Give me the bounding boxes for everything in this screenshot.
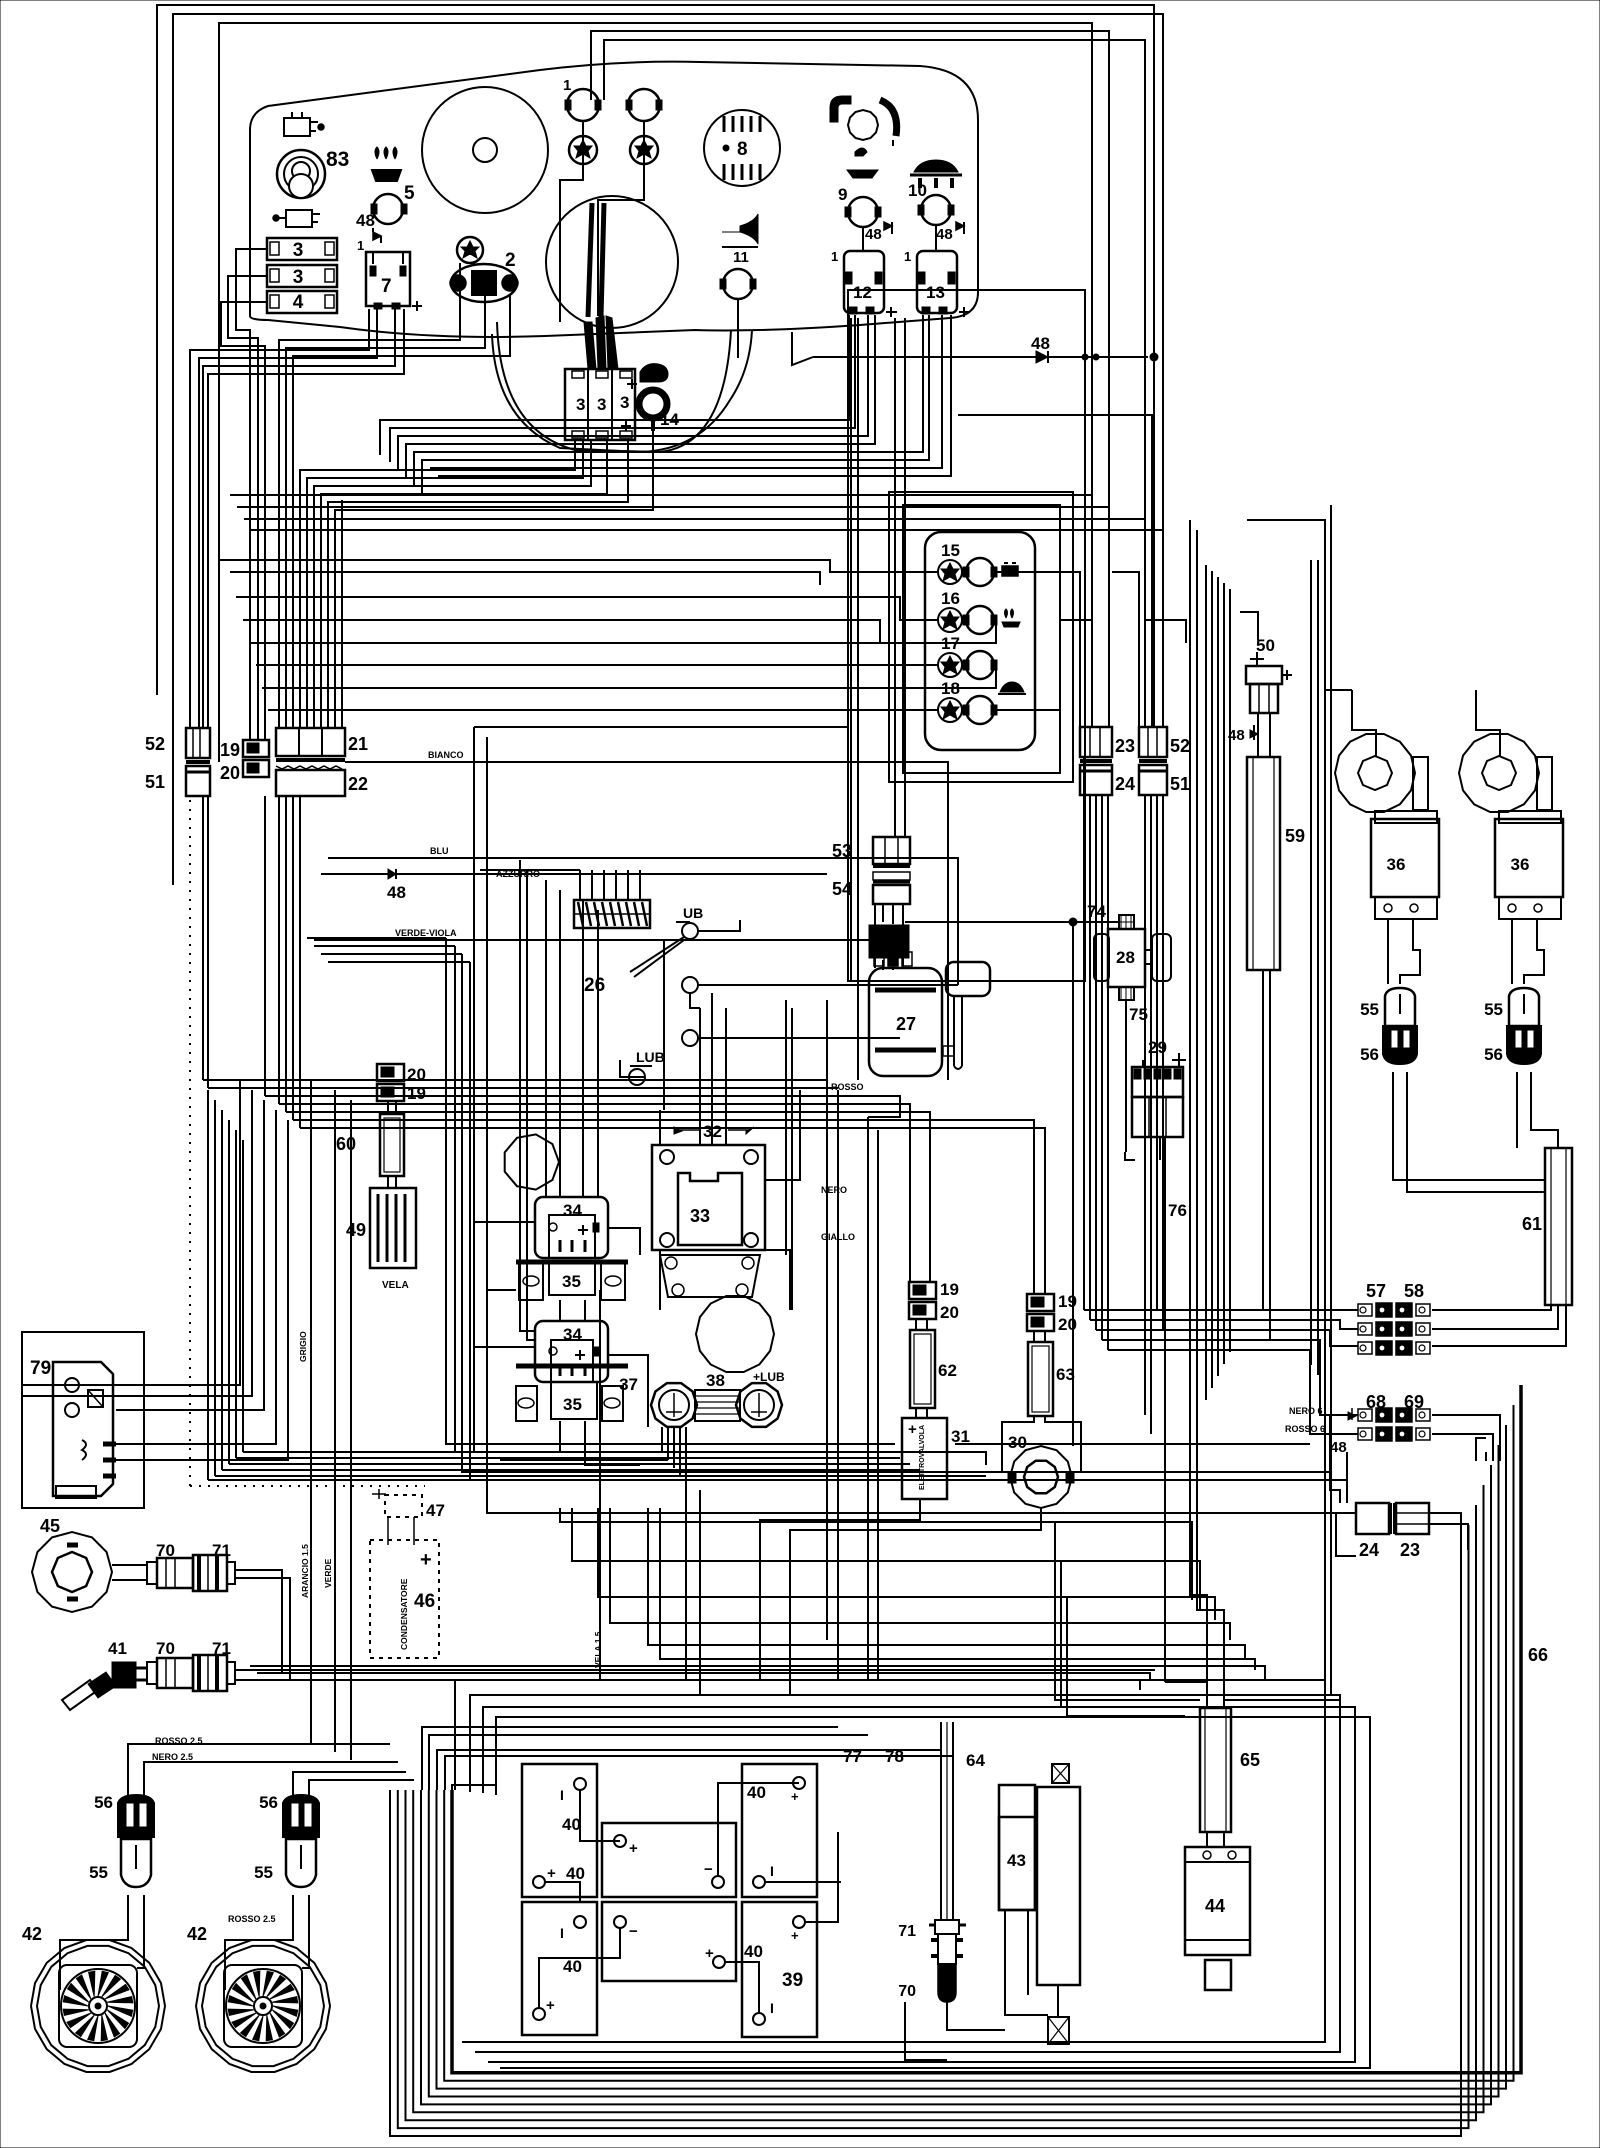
svg-text:19: 19 bbox=[220, 740, 240, 760]
svg-text:24: 24 bbox=[1115, 774, 1135, 794]
choke icon bbox=[830, 96, 851, 122]
svg-text:23: 23 bbox=[1115, 736, 1135, 756]
svg-text:GRIGIO: GRIGIO bbox=[298, 1331, 308, 1362]
connector 19/20 (63) bbox=[1027, 1294, 1054, 1311]
svg-text:12: 12 bbox=[853, 283, 872, 302]
solenoid tube 63 bbox=[1033, 1331, 1035, 1342]
svg-text:57: 57 bbox=[1366, 1281, 1386, 1301]
battery cell B bbox=[602, 1823, 736, 1897]
svg-text:52: 52 bbox=[1170, 736, 1190, 756]
engine compartment box 1 bbox=[455, 1680, 1325, 2042]
relay box 43 bbox=[999, 1785, 1035, 1910]
svg-text:I: I bbox=[560, 1925, 564, 1941]
svg-text:65: 65 bbox=[1240, 1750, 1260, 1770]
battery cell A bbox=[522, 1764, 597, 1897]
svg-text:48: 48 bbox=[387, 883, 406, 902]
svg-text:13: 13 bbox=[926, 283, 945, 302]
connector 20 small left bbox=[243, 760, 269, 777]
svg-text:52: 52 bbox=[145, 734, 165, 754]
svg-text:VERDE-VIOLA: VERDE-VIOLA bbox=[395, 928, 457, 938]
lamp star icon bbox=[457, 237, 483, 263]
cable 65 bbox=[1200, 1708, 1231, 1832]
svg-text:48: 48 bbox=[1330, 1439, 1347, 1456]
wires connectors up to bundle bbox=[128, 1744, 390, 1797]
svg-text:23: 23 bbox=[1400, 1540, 1420, 1560]
svg-text:48: 48 bbox=[865, 226, 882, 243]
wires horn/lamps down bbox=[737, 299, 739, 358]
svg-text:35: 35 bbox=[563, 1395, 582, 1414]
svg-text:16: 16 bbox=[941, 589, 960, 608]
svg-text:56: 56 bbox=[94, 1793, 113, 1812]
wires to 79 box bbox=[22, 1384, 116, 1386]
svg-text:BIANCO: BIANCO bbox=[428, 750, 464, 760]
wires mid column down to relays bbox=[474, 727, 986, 1465]
fuse under 28 bbox=[1119, 987, 1134, 1000]
fan motor 42 bbox=[196, 1940, 330, 2072]
svg-text:+: + bbox=[420, 1549, 432, 1571]
wires lamp cluster right side bbox=[1112, 572, 1139, 727]
thick harness into fuse block bbox=[584, 322, 596, 369]
icon oil (lamp16) bbox=[1002, 622, 1020, 627]
connector 22 (multi-pin lower) bbox=[276, 758, 345, 762]
wires 36 fans to 55/56 bbox=[1387, 919, 1389, 984]
connector 56 body bbox=[1383, 1026, 1417, 1064]
switch 26 feed wires down bbox=[699, 1008, 701, 1145]
wires 43 to cylinder bbox=[1005, 1910, 1048, 2015]
svg-text:37: 37 bbox=[619, 1375, 638, 1394]
relay mount 35 (first) bbox=[516, 1260, 628, 1265]
oil tank 27 bbox=[869, 968, 942, 1076]
svg-text:ROSSO 6: ROSSO 6 bbox=[1285, 1424, 1325, 1434]
connector 55 bullet bbox=[1385, 988, 1415, 1026]
wire bundle left frame to connectors bbox=[189, 430, 191, 728]
top long runs y495-530 bbox=[230, 494, 1092, 496]
svg-text:19: 19 bbox=[1058, 1292, 1077, 1311]
svg-text:55: 55 bbox=[254, 1863, 273, 1882]
relay 34 (first) bbox=[535, 1197, 608, 1258]
fuse 3 row1 bbox=[267, 238, 337, 260]
wires panel bottom fanout bbox=[190, 309, 369, 430]
svg-text:10: 10 bbox=[908, 181, 927, 200]
svg-text:40: 40 bbox=[563, 1957, 582, 1976]
condenser 46 (dashed box) bbox=[370, 1540, 439, 1658]
tank handle bbox=[946, 962, 990, 996]
fuse 3 row2 bbox=[267, 265, 337, 287]
svg-text:38: 38 bbox=[706, 1371, 725, 1390]
wires 61 bottom to strips bbox=[1550, 1305, 1552, 1310]
mid-bottom verticals to starter bbox=[1055, 1522, 1200, 1700]
solenoid tube 62 bbox=[915, 1319, 917, 1330]
svg-text:43: 43 bbox=[1007, 1851, 1026, 1870]
switch 26 contact 3 bbox=[682, 1030, 698, 1046]
instrument 8 (tacho) bbox=[704, 110, 780, 186]
wires 32/33 region bbox=[659, 1110, 661, 1145]
cable 59 bbox=[1247, 757, 1280, 970]
wires 36 fans top feeds bbox=[1352, 690, 1376, 757]
diode 48 on bus wire bbox=[813, 356, 1148, 358]
svg-text:39: 39 bbox=[782, 1970, 803, 1991]
mid horizontals y938-962 bbox=[307, 937, 446, 939]
horizontal bundle y1444-1480 long bbox=[243, 1451, 986, 1453]
wire with diode 48 mid bbox=[321, 873, 827, 875]
connector 55 bullet bbox=[1509, 988, 1539, 1026]
battery cell D bbox=[522, 1902, 597, 2035]
svg-text:5: 5 bbox=[404, 183, 415, 204]
icon lighter bbox=[286, 210, 312, 227]
svg-text:71: 71 bbox=[898, 1923, 916, 1940]
wire GRIGIO vertical bbox=[310, 1080, 312, 1744]
svg-text:36: 36 bbox=[1387, 855, 1406, 874]
coil lower bracket bbox=[660, 1255, 760, 1297]
wires relays down to harness 53 bbox=[850, 318, 852, 980]
svg-text:GIALLO: GIALLO bbox=[821, 1232, 855, 1242]
svg-text:3: 3 bbox=[620, 393, 629, 412]
engine compartment box 3 bbox=[483, 1707, 1355, 2062]
svg-text:2: 2 bbox=[505, 250, 516, 271]
svg-text:48: 48 bbox=[1031, 334, 1050, 353]
svg-text:40: 40 bbox=[747, 1783, 766, 1802]
svg-text:1: 1 bbox=[831, 249, 838, 264]
verticals heading down right of centre bbox=[1083, 757, 1085, 1310]
svg-text:36: 36 bbox=[1511, 855, 1530, 874]
wires relays 12/13 down-left bbox=[380, 315, 849, 455]
dotted ground wire horizontal bbox=[190, 1485, 425, 1487]
wire VERDE vertical bbox=[350, 1100, 352, 1760]
svg-text:VELA 1.5: VELA 1.5 bbox=[593, 1631, 603, 1668]
bundle corner horizontals bbox=[422, 1727, 838, 1790]
dotted ground wire vertical bbox=[189, 800, 191, 1486]
svg-text:1: 1 bbox=[904, 249, 911, 264]
svg-text:49: 49 bbox=[346, 1220, 366, 1240]
svg-text:7: 7 bbox=[381, 276, 392, 297]
svg-text:11: 11 bbox=[733, 249, 749, 266]
svg-text:59: 59 bbox=[1285, 826, 1305, 846]
svg-text:19: 19 bbox=[940, 1280, 959, 1299]
svg-text:I: I bbox=[770, 2000, 774, 2016]
outer frame line 1 (top/left/right) bbox=[157, 5, 1154, 727]
svg-text:20: 20 bbox=[940, 1303, 959, 1322]
svg-text:76: 76 bbox=[1168, 1201, 1187, 1220]
svg-text:20: 20 bbox=[407, 1065, 426, 1084]
icon shower 10 bbox=[914, 160, 958, 172]
bottom connector 23/24 wires bbox=[1330, 1415, 1340, 1503]
svg-text:56: 56 bbox=[1484, 1045, 1503, 1064]
capacitor 47 (dashed) bbox=[385, 1495, 422, 1517]
connector 55 (fan lead) bbox=[286, 1839, 316, 1887]
svg-text:−: − bbox=[704, 1861, 713, 1878]
svg-text:4: 4 bbox=[293, 292, 304, 313]
svg-text:42: 42 bbox=[22, 1924, 42, 1944]
svg-text:27: 27 bbox=[896, 1014, 916, 1034]
wire top frame inner bbox=[604, 40, 1145, 727]
outer frame line 4 bbox=[591, 31, 1109, 727]
engine compartment box 4 bbox=[496, 1717, 1370, 2068]
svg-text:NERO 2.5: NERO 2.5 bbox=[152, 1752, 193, 1762]
engine bay connect runs bbox=[250, 1666, 1265, 1680]
svg-text:42: 42 bbox=[187, 1924, 207, 1944]
relay area cross wires bbox=[474, 1221, 535, 1223]
svg-text:61: 61 bbox=[1522, 1214, 1542, 1234]
connector 56 body bbox=[1507, 1026, 1541, 1064]
fan motor 42 bbox=[31, 1940, 165, 2072]
wires 55/56 down to 61/57 bbox=[1393, 1072, 1545, 1180]
fuse block 3-3-3 bbox=[565, 369, 635, 440]
harness tape (black blob) bbox=[869, 925, 909, 958]
battery cell C bbox=[742, 1764, 817, 1897]
connector 19/20 (62) bbox=[909, 1282, 936, 1299]
svg-text:+: + bbox=[629, 1840, 638, 1857]
icon temp (lamp18) bbox=[1000, 682, 1024, 692]
mid-right long verticals bbox=[1190, 520, 1207, 1708]
battery cell E bbox=[602, 1902, 736, 1981]
svg-text:LUB: LUB bbox=[636, 1049, 665, 1065]
svg-text:64: 64 bbox=[966, 1751, 985, 1770]
svg-text:UB: UB bbox=[683, 905, 703, 921]
lamp cluster mid box bbox=[889, 492, 1073, 782]
svg-text:I: I bbox=[770, 1863, 774, 1879]
svg-text:I: I bbox=[560, 1787, 564, 1803]
svg-text:33: 33 bbox=[690, 1206, 710, 1226]
svg-text:ROSSO 2.5: ROSSO 2.5 bbox=[228, 1914, 276, 1924]
wire 75/76 bottom runs bbox=[1125, 1152, 1135, 1160]
svg-text:55: 55 bbox=[89, 1863, 108, 1882]
ignition device 2/6 bbox=[451, 264, 517, 302]
wire horizontal mid-right group bbox=[1247, 520, 1325, 1680]
svg-text:70: 70 bbox=[156, 1639, 175, 1658]
wires from gauges down to 21 connector bbox=[279, 263, 460, 500]
wire 70 to cylinder bbox=[947, 2002, 1005, 2030]
wires bundle 66 feeders bbox=[1476, 1438, 1486, 1461]
svg-text:+: + bbox=[547, 1865, 556, 1882]
horn button 11 circle bbox=[723, 269, 753, 299]
pump 28 bbox=[1108, 929, 1145, 987]
steering column thick wires bbox=[588, 203, 592, 317]
wires fan2 to connector bbox=[225, 1895, 293, 1990]
svg-text:15: 15 bbox=[941, 541, 960, 560]
connector 51 (upper right) bbox=[1139, 759, 1167, 763]
battery cell F bbox=[742, 1902, 817, 2037]
svg-text:58: 58 bbox=[1404, 1281, 1424, 1301]
blower fan 36 bbox=[1459, 734, 1539, 812]
svg-text:40: 40 bbox=[744, 1942, 763, 1961]
svg-text:22: 22 bbox=[348, 774, 368, 794]
wires down to engine box bbox=[685, 1484, 687, 1680]
wire across to lamp box bbox=[474, 726, 848, 728]
svg-text:3: 3 bbox=[293, 240, 304, 261]
connector 51 lower part bbox=[186, 760, 210, 764]
wires 50/59 tails bbox=[1240, 612, 1258, 640]
connector 56 (fan lead) bbox=[118, 1795, 154, 1837]
svg-text:45: 45 bbox=[40, 1516, 60, 1536]
mid verticals bundle x446-470 bbox=[446, 938, 895, 1444]
svg-text:48: 48 bbox=[356, 211, 375, 230]
svg-text:24: 24 bbox=[1359, 1540, 1379, 1560]
svg-text:28: 28 bbox=[1116, 948, 1135, 967]
svg-text:3: 3 bbox=[576, 395, 585, 414]
outer frame line 3 bbox=[219, 23, 1092, 762]
svg-text:6: 6 bbox=[478, 276, 487, 295]
svg-text:34: 34 bbox=[563, 1325, 582, 1344]
outer frame line 2 bbox=[173, 14, 1163, 885]
svg-text:VERDE: VERDE bbox=[323, 1558, 333, 1588]
wire VELA 1.5 long vertical bbox=[599, 1290, 601, 1680]
steering column bulge of panel bbox=[492, 330, 752, 452]
flasher relay 13 bbox=[917, 251, 957, 313]
connector 56 (fan lead) bbox=[283, 1795, 319, 1837]
connector 53 bbox=[873, 837, 910, 864]
wires fan1 to connector bbox=[60, 1895, 128, 1990]
svg-text:56: 56 bbox=[259, 1793, 278, 1812]
svg-text:40: 40 bbox=[562, 1815, 581, 1834]
svg-text:+: + bbox=[908, 1421, 917, 1438]
cable 61 bbox=[1545, 1148, 1572, 1305]
svg-text:+: + bbox=[705, 1945, 714, 1962]
svg-text:34: 34 bbox=[563, 1201, 582, 1220]
blower fan 36 bbox=[1335, 734, 1415, 812]
strip 68/69 right side wires bbox=[1432, 1415, 1500, 1461]
regulator 7 bbox=[366, 252, 410, 306]
connector 20/19 (mid) bbox=[377, 1064, 404, 1081]
connector 52 upper part bbox=[186, 728, 210, 758]
icon battery (lamp15) bbox=[1002, 566, 1018, 576]
svg-text:NERO: NERO bbox=[821, 1185, 847, 1195]
choke knob bbox=[848, 110, 878, 140]
svg-text:3: 3 bbox=[293, 267, 304, 288]
svg-text:55: 55 bbox=[1484, 1000, 1503, 1019]
svg-text:3: 3 bbox=[597, 395, 606, 414]
centre region verticals (77/78 etc) bbox=[826, 1000, 828, 1640]
wires from connectors to right bbox=[235, 1570, 282, 1673]
black arc lever bbox=[880, 100, 897, 136]
trim cylinder bbox=[1037, 1787, 1080, 1985]
wires 30/31 down bbox=[760, 1499, 920, 1680]
starter motor 44 bbox=[1206, 1832, 1208, 1847]
connector 19 small left bbox=[243, 740, 269, 757]
wires 26 switch to right bbox=[698, 920, 740, 931]
svg-text:1: 1 bbox=[357, 238, 364, 253]
fuel gauge (big circle) bbox=[422, 87, 548, 213]
svg-text:60: 60 bbox=[336, 1134, 356, 1154]
svg-text:56: 56 bbox=[1360, 1045, 1379, 1064]
resistor 60 bbox=[387, 1101, 389, 1114]
long mid horizontals lower bbox=[560, 1508, 1192, 1600]
distributor circle bbox=[696, 1296, 774, 1372]
wire loop bundle 66 (right side + bottom) bbox=[390, 1545, 1461, 2136]
svg-text:41: 41 bbox=[108, 1639, 127, 1658]
svg-text:ARANCIO 1.5: ARANCIO 1.5 bbox=[300, 1544, 310, 1598]
connector 23 (bottom) bbox=[1396, 1503, 1429, 1534]
wire BLU bbox=[328, 858, 958, 985]
relay mount 35 (second) bbox=[516, 1364, 628, 1369]
svg-text:21: 21 bbox=[348, 734, 368, 754]
svg-text:79: 79 bbox=[30, 1358, 51, 1379]
connector 23 (upper right) bbox=[1080, 727, 1112, 757]
wire 29 to 75 connect bbox=[1125, 1000, 1127, 1067]
regulator box 79 bbox=[22, 1332, 144, 1508]
svg-text:CONDENSATORE: CONDENSATORE bbox=[399, 1578, 409, 1650]
key 14 bbox=[640, 364, 668, 382]
connector 21 (multi-pin upper) bbox=[276, 728, 345, 756]
coil assembly 33 bbox=[652, 1145, 765, 1250]
svg-text:66: 66 bbox=[1528, 1645, 1548, 1665]
warning lamp 5 bbox=[373, 194, 403, 224]
svg-text:+: + bbox=[791, 1789, 799, 1804]
svg-text:30: 30 bbox=[1008, 1433, 1027, 1452]
flasher relay 12 bbox=[844, 251, 884, 313]
svg-text:26: 26 bbox=[584, 975, 605, 996]
speedometer circle over column bbox=[546, 196, 678, 328]
svg-text:VELA: VELA bbox=[382, 1280, 409, 1291]
wire BIANCO bbox=[345, 762, 948, 1080]
connector 24 (bottom) bbox=[1356, 1503, 1389, 1534]
strip 57/58 wires into cable 61 bbox=[1432, 1305, 1551, 1310]
svg-text:51: 51 bbox=[145, 772, 165, 792]
lamp cluster panel bbox=[903, 505, 1060, 773]
svg-text:83: 83 bbox=[326, 148, 349, 171]
wires from right connectors to terminal strips bbox=[1084, 1309, 1358, 1311]
svg-text:9: 9 bbox=[838, 185, 847, 204]
svg-text:46: 46 bbox=[414, 1591, 435, 1612]
fuse 4 row3 bbox=[267, 291, 337, 313]
gauge lamp pair 2 bbox=[628, 89, 660, 121]
svg-text:40: 40 bbox=[566, 1864, 585, 1883]
lower-left vertical feeders bbox=[207, 1090, 209, 1480]
mid-right vertical bundle x1206-1232 bbox=[1205, 565, 1207, 1400]
svg-text:47: 47 bbox=[426, 1501, 445, 1520]
svg-text:NERO 6: NERO 6 bbox=[1289, 1406, 1323, 1416]
svg-text:62: 62 bbox=[938, 1361, 957, 1380]
svg-text:+: + bbox=[791, 1928, 799, 1943]
connector 24 (upper right) bbox=[1080, 759, 1112, 763]
wire VERDE-VIOLA bbox=[314, 925, 875, 940]
svg-text:20: 20 bbox=[220, 763, 240, 783]
centre extra verticals bbox=[663, 940, 665, 1110]
tank cap bbox=[874, 952, 884, 966]
svg-text:+: + bbox=[546, 1997, 555, 2014]
octagon joint bbox=[505, 1134, 559, 1189]
svg-text:1: 1 bbox=[563, 77, 571, 94]
svg-text:−: − bbox=[629, 1923, 638, 1940]
icon hourmeter top bbox=[284, 118, 310, 136]
svg-text:ROSSO: ROSSO bbox=[831, 1082, 864, 1092]
long horizontal runs to lamp cluster bbox=[219, 560, 938, 572]
connector 55 (fan lead) bbox=[121, 1839, 151, 1887]
dashboard panel outline bbox=[250, 62, 978, 337]
ignition switch block (hatched) bbox=[574, 900, 650, 928]
wires bottom mid connectors bbox=[905, 2002, 947, 2060]
svg-text:35: 35 bbox=[562, 1272, 581, 1291]
svg-text:48: 48 bbox=[936, 226, 953, 243]
column shroud arc bbox=[497, 322, 731, 452]
svg-text:70: 70 bbox=[898, 1983, 916, 2000]
connector 54 bbox=[873, 872, 910, 880]
svg-text:20: 20 bbox=[1058, 1315, 1077, 1334]
wires 37/38 down bbox=[661, 1427, 663, 1452]
solenoid valve 31 bbox=[915, 1408, 917, 1418]
wire relay13 to right vertical bbox=[958, 415, 1152, 727]
svg-text:44: 44 bbox=[1205, 1896, 1225, 1916]
wire ARANCIO vertical bbox=[334, 1090, 336, 1752]
icon droplets bbox=[372, 170, 401, 181]
left verticals continue to bottom area bbox=[202, 796, 204, 1080]
svg-text:19: 19 bbox=[407, 1084, 426, 1103]
connector 52 (upper right) bbox=[1139, 727, 1167, 757]
lamp cluster outer box bbox=[848, 290, 1085, 981]
centre horizontal bundle y1080-1128 bbox=[203, 1079, 827, 1081]
spark module 49 bbox=[387, 1176, 389, 1188]
cable 64 bbox=[940, 1722, 942, 1920]
svg-text:8: 8 bbox=[737, 139, 748, 160]
